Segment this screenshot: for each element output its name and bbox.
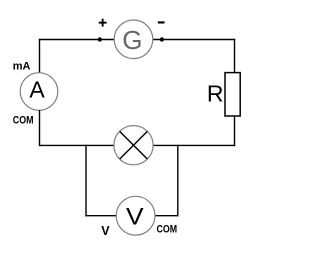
svg-text:mA: mA bbox=[13, 61, 31, 73]
wire left lower segment bbox=[39, 110, 41, 146]
node - junction dot bbox=[160, 37, 164, 41]
galvanometer U1 G bbox=[114, 20, 153, 59]
svg-text:R: R bbox=[207, 81, 224, 107]
svg-text:COM: COM bbox=[13, 115, 34, 127]
svg-text:V: V bbox=[126, 203, 144, 230]
svg-text:V: V bbox=[101, 224, 110, 238]
node + junction dot bbox=[98, 37, 102, 41]
COM label (voltmeter) bbox=[157, 224, 178, 236]
wire top-right segment bbox=[153, 39, 235, 41]
V terminal label bbox=[101, 224, 110, 238]
svg-text:G: G bbox=[122, 25, 142, 55]
wire voltmeter right lead bbox=[155, 215, 179, 217]
wire right upper segment bbox=[234, 39, 236, 73]
+ polarity label bbox=[99, 19, 107, 27]
svg-text:A: A bbox=[29, 76, 45, 102]
wire voltmeter-branch left vertical bbox=[85, 145, 87, 217]
wire voltmeter-branch right vertical bbox=[177, 145, 179, 217]
lamp bbox=[114, 126, 153, 165]
- polarity label bbox=[158, 21, 165, 23]
mA label bbox=[13, 61, 31, 73]
wire right lower segment bbox=[234, 116, 236, 146]
COM label (ammeter) bbox=[13, 115, 34, 127]
wire top-left segment bbox=[39, 39, 115, 41]
voltmeter V bbox=[116, 196, 155, 235]
wire bottom-left segment bbox=[39, 144, 114, 146]
wire bottom-right segment bbox=[153, 144, 235, 146]
wire voltmeter left lead bbox=[85, 215, 116, 217]
wire left upper segment bbox=[39, 39, 41, 73]
resistor R bbox=[207, 73, 240, 116]
svg-text:COM: COM bbox=[157, 224, 178, 236]
ammeter A bbox=[20, 73, 58, 111]
